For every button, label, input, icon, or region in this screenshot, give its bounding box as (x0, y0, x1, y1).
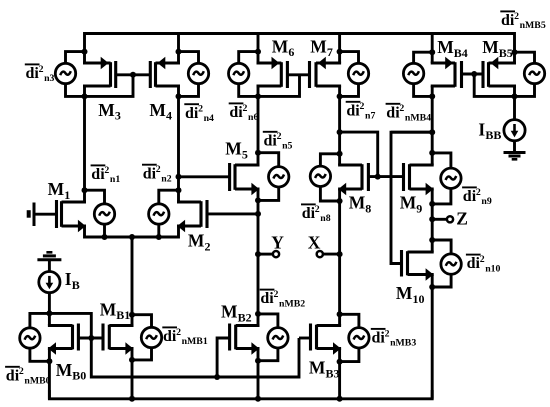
wire M6 gate-drain tie (258, 75, 300, 97)
wire M5 source column (255, 189, 261, 326)
transistor M9 (404, 163, 434, 195)
wire IB stem (48, 260, 51, 272)
label MB0 (56, 360, 87, 383)
noise source di2nMB4 (403, 63, 423, 83)
svg-text:n2: n2 (161, 174, 171, 185)
wire M8-M9 gate link (368, 174, 403, 180)
wire M7 source riser (337, 34, 343, 64)
label di2n3 (25, 64, 55, 84)
capacitor n3 source leads (66, 52, 85, 97)
noise source di2n1 (94, 204, 114, 224)
label di2n10 (466, 254, 501, 274)
transistor M10 (402, 250, 434, 281)
wire ground rail (49, 390, 432, 399)
transistor MB1 (103, 324, 134, 355)
wire MB5 source riser (512, 49, 518, 55)
wire M4 source riser (176, 34, 182, 64)
svg-text:2: 2 (480, 254, 485, 265)
noise source di2n2 leads (159, 190, 179, 237)
svg-text:n4: n4 (204, 113, 214, 124)
noise source di2n3 (55, 63, 75, 83)
ground IBB (504, 153, 526, 160)
wire bias riser to M8 M9 M10 gates (391, 132, 432, 263)
svg-text:2: 2 (205, 239, 211, 253)
noise source di2n10 (441, 254, 461, 274)
svg-text:di: di (467, 255, 481, 272)
svg-text:M: M (272, 36, 289, 56)
svg-text:B3: B3 (326, 366, 340, 380)
label IB (65, 269, 80, 292)
noise source di2n4 leads (179, 52, 199, 97)
svg-text:2: 2 (39, 64, 44, 75)
transistor M5 (230, 163, 260, 195)
svg-text:2: 2 (104, 165, 109, 176)
label di2n7 (346, 101, 376, 121)
wire MB1 source column (129, 349, 135, 402)
svg-text:8: 8 (365, 201, 371, 215)
svg-text:nMB0: nMB0 (24, 376, 50, 387)
noise source di2nMB0 (20, 328, 40, 348)
label di2n2 (142, 164, 172, 184)
wire M3-M4 gate link (116, 72, 151, 78)
svg-text:di: di (163, 328, 177, 345)
svg-text:BB: BB (485, 128, 501, 142)
label M9 (400, 193, 423, 216)
label Y (271, 233, 284, 253)
wire tail column (129, 237, 135, 326)
noise source di2nMB2 leads (258, 314, 278, 361)
svg-text:I: I (478, 119, 485, 139)
label MB2 (221, 302, 252, 325)
svg-text:n5: n5 (282, 141, 292, 152)
transistor M7 (310, 57, 342, 88)
label M3 (98, 100, 121, 123)
svg-text:3: 3 (115, 109, 121, 123)
svg-text:M: M (56, 360, 73, 380)
svg-text:di: di (26, 65, 40, 82)
label X (308, 233, 321, 253)
label di2nMB2 (260, 289, 306, 309)
noise source di2n9 leads (432, 153, 451, 204)
wire MB0-MB1 gate link (78, 337, 103, 340)
svg-text:2: 2 (274, 289, 279, 300)
wire tail (85, 226, 179, 240)
noise source di2nMB3 leads (340, 314, 359, 361)
wire M1 gate lead (34, 213, 57, 216)
ground M1 gate input (29, 203, 34, 227)
noise source di2n6 leads (239, 52, 258, 97)
noise source di2n10 leads (432, 240, 451, 287)
svg-text:M: M (225, 139, 242, 159)
transistor M1 (57, 200, 87, 232)
label MB1 (100, 299, 131, 322)
svg-text:B2: B2 (238, 310, 252, 324)
svg-text:M: M (221, 302, 238, 322)
noise source di2n8 leads (320, 154, 339, 201)
svg-text:2: 2 (19, 366, 24, 377)
svg-text:2: 2 (243, 103, 248, 114)
label M1 (48, 179, 71, 202)
svg-text:n6: n6 (248, 112, 258, 123)
transistor MB4 (431, 57, 462, 88)
svg-text:2: 2 (277, 131, 282, 142)
svg-text:2: 2 (198, 104, 203, 115)
wire gate-drain tie M3 (85, 75, 134, 97)
svg-text:di: di (386, 104, 400, 121)
transistor M8 (338, 163, 368, 195)
wire MB4 source riser (429, 34, 435, 64)
current source IB (39, 272, 60, 293)
svg-text:2: 2 (399, 103, 404, 114)
svg-text:di: di (260, 290, 274, 307)
wire M4 drain column (176, 86, 182, 202)
wire MB3 source column (337, 349, 343, 402)
svg-text:M: M (188, 231, 205, 251)
wire M6-M7 gate link (287, 73, 309, 76)
transistor M4 (150, 57, 180, 88)
noise source di2n9 (441, 168, 461, 188)
svg-text:2: 2 (360, 101, 365, 112)
label MB5 (482, 37, 513, 60)
label di2n8 (301, 204, 331, 224)
svg-text:di: di (463, 188, 477, 205)
label M10 (396, 283, 425, 306)
wire MB2 source column (255, 349, 261, 402)
noise source di2n1 leads (85, 190, 105, 237)
transistor M6 (257, 57, 288, 88)
svg-text:n10: n10 (485, 263, 500, 274)
svg-text:n8: n8 (320, 213, 330, 224)
noise source di2nMB0 leads (30, 313, 50, 361)
current source IBB (504, 120, 525, 141)
label di2nMB4 (386, 103, 432, 123)
svg-text:B4: B4 (454, 46, 468, 60)
wire M6 source riser (255, 34, 261, 64)
wire M6 drain column (255, 86, 261, 165)
noise source di2nMB5 leads (515, 52, 535, 96)
label di2n4 (184, 104, 214, 124)
wire M10 source column (429, 275, 435, 399)
noise source di2n7 (348, 63, 368, 83)
svg-text:1: 1 (64, 188, 70, 202)
svg-text:M: M (100, 299, 117, 319)
wire top rail (85, 34, 515, 64)
svg-text:I: I (65, 269, 72, 289)
svg-text:n1: n1 (110, 174, 120, 185)
svg-text:6: 6 (288, 45, 294, 59)
wire bias line (49, 313, 299, 380)
svg-text:M: M (310, 36, 327, 56)
noise source di2nMB1 leads (132, 315, 152, 360)
label di2nMB1 (162, 327, 208, 347)
svg-text:2: 2 (315, 204, 320, 215)
noise source di2nMB1 (141, 327, 161, 347)
svg-text:di: di (91, 166, 105, 183)
noise source di2nMB5 (524, 63, 544, 83)
wire M5 gate lead (179, 175, 230, 178)
svg-text:2: 2 (176, 327, 181, 338)
wire MB4-MB5 gate link (462, 71, 484, 77)
svg-text:Z: Z (456, 208, 468, 228)
svg-text:nMB2: nMB2 (279, 298, 305, 309)
svg-text:M: M (48, 179, 65, 199)
noise source di2nMB4 leads (414, 52, 433, 96)
svg-text:B5: B5 (499, 46, 513, 60)
label M8 (349, 193, 372, 216)
wire MB0 source column (46, 349, 52, 399)
transistor MB3 (311, 324, 342, 355)
svg-text:7: 7 (327, 45, 333, 59)
node Z (432, 216, 453, 222)
svg-text:M: M (400, 193, 417, 213)
svg-text:4: 4 (166, 109, 172, 123)
svg-text:M: M (396, 283, 413, 303)
svg-text:Y: Y (271, 233, 284, 253)
label di2n6 (229, 103, 259, 123)
noise source di2n5 leads (258, 153, 279, 201)
transistor MB5 (483, 57, 516, 88)
svg-text:nMB5: nMB5 (520, 20, 546, 31)
label di2n5 (263, 131, 293, 151)
ground IB (37, 252, 61, 259)
label di2nMB0 (5, 366, 51, 386)
noise source di2n4 (188, 63, 208, 83)
svg-text:B0: B0 (72, 369, 86, 383)
wire MB5 gate-drain tie (474, 74, 514, 96)
svg-text:2: 2 (476, 187, 481, 198)
wire IB column (46, 293, 52, 326)
svg-text:di: di (185, 105, 199, 122)
svg-text:nMB4: nMB4 (405, 113, 431, 124)
node M3 drain column (82, 49, 88, 202)
svg-text:di: di (372, 330, 386, 347)
label M4 (149, 100, 172, 123)
label di2n1 (91, 165, 121, 185)
svg-text:5: 5 (242, 147, 248, 161)
wire MB2 gate lead (217, 338, 230, 377)
noise source di2n5 (269, 167, 289, 187)
wire IBB ground stem (513, 141, 516, 152)
label Z (456, 208, 468, 228)
node Y (255, 251, 279, 257)
label di2nMB3 (371, 328, 417, 348)
svg-text:di: di (229, 104, 243, 121)
svg-text:di: di (302, 205, 316, 222)
svg-text:n9: n9 (481, 196, 491, 207)
wire MB3 gate lead (299, 337, 311, 340)
svg-text:2: 2 (385, 328, 390, 339)
noise source di2nMB3 (349, 328, 369, 348)
svg-text:M: M (349, 193, 366, 213)
transistor M2 (177, 200, 207, 232)
svg-text:M: M (309, 358, 326, 378)
node X (317, 251, 343, 257)
svg-text:M: M (437, 37, 454, 57)
svg-text:10: 10 (413, 292, 425, 306)
noise source di2n7 leads (340, 52, 359, 97)
svg-text:B: B (72, 278, 80, 292)
transistor MB0 (48, 324, 79, 355)
wire MB4 drain to gate riser (391, 129, 435, 135)
label M5 (225, 139, 248, 162)
label MB4 (437, 37, 468, 60)
noise source di2n8 (310, 166, 330, 186)
svg-text:di: di (264, 132, 278, 149)
wire M8 source column (337, 189, 343, 326)
wire MB4 drain column (429, 86, 435, 165)
transistor M3 (83, 57, 116, 88)
svg-text:nMB3: nMB3 (390, 338, 416, 349)
svg-text:2: 2 (514, 11, 519, 22)
svg-text:n3: n3 (44, 73, 54, 84)
svg-text:M: M (149, 100, 166, 120)
wire M7 drain column (337, 86, 343, 165)
wire M9 source column (429, 189, 435, 252)
svg-text:B1: B1 (116, 308, 130, 322)
noise source di2nMB2 (268, 328, 288, 348)
label M6 (272, 36, 295, 59)
svg-text:X: X (308, 233, 321, 253)
svg-text:di: di (501, 12, 515, 29)
svg-text:9: 9 (416, 201, 422, 215)
label M2 (188, 231, 211, 254)
svg-text:n7: n7 (365, 111, 375, 122)
svg-text:di: di (143, 165, 157, 182)
label di2nMB5 (500, 11, 546, 31)
transistor MB2 (230, 324, 260, 355)
label M7 (310, 36, 333, 59)
label di2n9 (462, 187, 492, 207)
wire M2 gate lead (207, 212, 258, 215)
svg-text:M: M (482, 37, 499, 57)
svg-text:di: di (6, 367, 20, 384)
noise source di2n6 (229, 63, 249, 83)
svg-text:2: 2 (156, 164, 161, 175)
label IBB (478, 119, 501, 142)
svg-text:di: di (346, 102, 360, 119)
label MB3 (309, 358, 340, 381)
wire MB5 drain column (512, 86, 518, 120)
wire M8 gate-drain tie (337, 129, 378, 177)
noise source di2n2 (149, 204, 169, 224)
svg-text:nMB1: nMB1 (182, 336, 208, 347)
svg-text:M: M (98, 100, 115, 120)
